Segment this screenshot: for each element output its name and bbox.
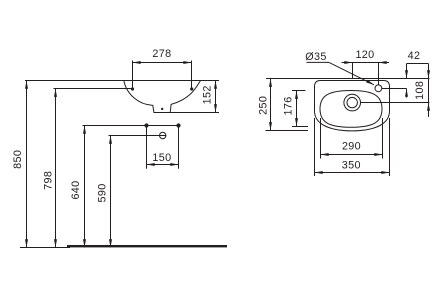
svg-text:152: 152	[202, 85, 214, 104]
svg-text:278: 278	[152, 48, 171, 60]
svg-text:640: 640	[70, 180, 82, 199]
svg-text:290: 290	[342, 141, 361, 153]
svg-text:798: 798	[43, 171, 55, 190]
svg-text:42: 42	[408, 50, 421, 62]
svg-text:150: 150	[152, 152, 171, 164]
svg-text:176: 176	[283, 96, 295, 115]
svg-text:Ø35: Ø35	[305, 51, 326, 63]
svg-text:590: 590	[96, 183, 108, 202]
svg-text:250: 250	[258, 96, 270, 115]
svg-text:850: 850	[12, 150, 24, 169]
svg-text:350: 350	[342, 160, 361, 172]
svg-text:108: 108	[414, 81, 426, 100]
svg-text:120: 120	[355, 49, 374, 61]
